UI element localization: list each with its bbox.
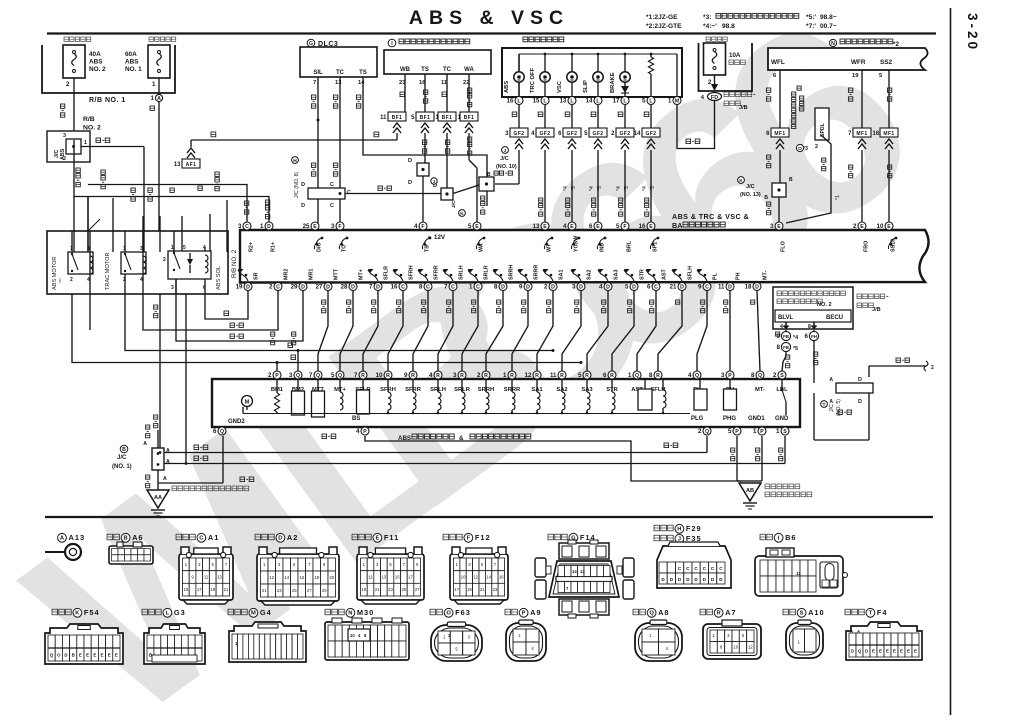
- svg-text:8: 8: [649, 372, 653, 379]
- svg-text:TS: TS: [359, 70, 367, 76]
- svg-text:*1:2JZ-GE: *1:2JZ-GE: [646, 14, 678, 21]
- svg-text:FLO: FLO: [781, 241, 787, 252]
- svg-text:BRAKE: BRAKE: [610, 72, 616, 93]
- svg-text:13: 13: [533, 223, 540, 230]
- svg-text:B6: B6: [785, 533, 796, 542]
- wire BF1-3 down: [446, 133, 448, 188]
- svg-text:K: K: [739, 178, 743, 184]
- wire pink-black horizontal: [345, 193, 441, 195]
- node FD: [708, 93, 722, 101]
- pin PL: [703, 283, 711, 291]
- svg-text:7: 7: [369, 284, 373, 291]
- svg-text:7: 7: [313, 80, 316, 86]
- svg-text:SRRH: SRRH: [509, 265, 515, 280]
- svg-text:3: 3: [63, 133, 66, 139]
- svg-text:28: 28: [341, 284, 348, 291]
- pin SA3: [583, 371, 591, 379]
- relay box R/B NO.1: [42, 45, 175, 93]
- svg-text:SFLH: SFLH: [688, 266, 694, 280]
- wire meter 1: [544, 105, 546, 128]
- pin LBL: [778, 371, 786, 379]
- wire red: [72, 294, 581, 363]
- pin STR: [608, 371, 616, 379]
- wire GND1 down: [761, 436, 763, 481]
- svg-text:3: 3: [453, 372, 457, 379]
- svg-text:13: 13: [381, 575, 386, 580]
- svg-text:M: M: [245, 400, 250, 406]
- svg-text:D: D: [408, 158, 412, 164]
- pin SRLH: [449, 283, 457, 291]
- svg-text:11: 11: [380, 115, 387, 121]
- lamp TRC OFF: [544, 53, 547, 56]
- svg-text:(NO. 10): (NO. 10): [496, 164, 517, 170]
- pin IND: [594, 222, 602, 230]
- svg-text:*7:': *7:': [806, 23, 816, 30]
- svg-text:BF1: BF1: [464, 115, 475, 121]
- svg-text:R/B: R/B: [83, 116, 95, 123]
- svg-text:J/C: J/C: [746, 184, 755, 190]
- svg-text:C: C: [276, 284, 280, 290]
- svg-text:ABS: ABS: [125, 59, 139, 66]
- svg-text:2: 2: [269, 284, 273, 291]
- svg-text:*4:~': *4:~': [703, 23, 717, 30]
- connector A8: [633, 609, 639, 615]
- pin 17L: [621, 97, 629, 105]
- wire SFLR: [363, 291, 378, 371]
- svg-text:18: 18: [314, 575, 319, 580]
- svg-text:7: 7: [444, 284, 448, 291]
- svg-text:E: E: [543, 224, 547, 230]
- wire fuse2 down: [73, 78, 75, 140]
- resistor MTT: [317, 380, 319, 391]
- lamp ABS: [518, 54, 520, 71]
- pin PL: [693, 371, 701, 379]
- junction J/C NO.13: [738, 177, 745, 184]
- connector A10: [783, 609, 789, 615]
- wire white-black row2: [164, 463, 785, 465]
- svg-text:10A: 10A: [729, 52, 741, 59]
- wire TC: [446, 74, 448, 112]
- pin MR2: [274, 283, 282, 291]
- svg-text:15: 15: [395, 575, 400, 580]
- svg-text:NO. 2: NO. 2: [817, 302, 832, 308]
- svg-text:15: 15: [533, 98, 540, 105]
- connector F12: [443, 534, 449, 540]
- svg-text:10: 10: [350, 633, 355, 638]
- svg-text:E: E: [887, 224, 891, 230]
- svg-text:D: D: [579, 284, 583, 290]
- svg-text:P: P: [735, 429, 739, 435]
- svg-text:SRLH: SRLH: [459, 265, 465, 280]
- pin PLG: [703, 427, 711, 435]
- wire SFRR: [413, 291, 428, 371]
- svg-text:E: E: [596, 224, 600, 230]
- svg-text:4: 4: [780, 324, 783, 330]
- pin FLO: [775, 222, 783, 230]
- svg-text:20: 20: [329, 575, 334, 580]
- svg-text:13: 13: [174, 162, 181, 168]
- svg-text:16: 16: [391, 284, 398, 291]
- svg-text:12: 12: [269, 575, 274, 580]
- svg-text:6: 6: [589, 223, 593, 230]
- svg-text:27: 27: [415, 587, 420, 592]
- svg-text:A: A: [143, 441, 147, 447]
- svg-text:C: C: [476, 284, 480, 290]
- svg-text:J: J: [504, 148, 507, 154]
- svg-text:5: 5: [625, 284, 629, 291]
- svg-text:5: 5: [616, 223, 620, 230]
- svg-text:8: 8: [494, 284, 498, 291]
- svg-text:2: 2: [163, 257, 166, 263]
- svg-text:O: O: [57, 652, 61, 657]
- svg-text:C: C: [245, 224, 249, 230]
- svg-text:2: 2: [773, 372, 777, 379]
- relay SPDL: [797, 86, 801, 90]
- svg-text:23: 23: [388, 587, 393, 592]
- svg-text:16: 16: [299, 575, 304, 580]
- svg-text:14: 14: [358, 80, 365, 86]
- svg-text:N: N: [831, 41, 835, 47]
- solenoid coil x587: [586, 380, 588, 392]
- svg-text:18: 18: [745, 284, 752, 291]
- svg-text:19: 19: [210, 587, 215, 592]
- svg-text:MF1: MF1: [883, 131, 894, 137]
- wire IND: [597, 150, 599, 170]
- connector B6: [760, 534, 766, 540]
- relay block outer: [47, 231, 228, 294]
- svg-text:S: S: [783, 429, 787, 435]
- pin 5L: [647, 97, 655, 105]
- connector GF2: [589, 128, 607, 137]
- svg-text:SLIP: SLIP: [583, 80, 589, 93]
- pin R2+: [243, 222, 251, 230]
- svg-text:00.7~: 00.7~: [820, 23, 837, 30]
- junction J/C NO.8: [292, 157, 299, 164]
- svg-text:BS: BS: [352, 416, 360, 422]
- svg-text:A8: A8: [658, 608, 669, 617]
- svg-text:D: D: [301, 284, 305, 290]
- pin WT: [541, 222, 549, 230]
- wire SIL: [317, 77, 319, 230]
- svg-text:S: S: [800, 611, 804, 617]
- svg-text:ABS & VSC: ABS & VSC: [409, 7, 569, 29]
- svg-text:FD: FD: [711, 95, 718, 101]
- svg-text:D: D: [64, 652, 67, 657]
- svg-text:*5: *5: [624, 186, 630, 191]
- svg-text:2: 2: [63, 156, 66, 162]
- resistor BM2: [297, 380, 299, 391]
- pin SS10: [885, 222, 893, 230]
- svg-text:R/B NO. 2: R/B NO. 2: [231, 249, 238, 278]
- wire SPDL down: [786, 135, 831, 223]
- svg-text:F: F: [623, 224, 626, 230]
- solenoid coil x562: [561, 380, 563, 392]
- svg-text:1: 1: [668, 98, 672, 105]
- svg-text:ABS & TRC & VSC &: ABS & TRC & VSC &: [672, 212, 749, 221]
- svg-text:P: P: [522, 611, 526, 617]
- svg-text:R: R: [436, 373, 440, 379]
- svg-text:E: E: [79, 652, 82, 657]
- svg-text:R: R: [510, 373, 514, 379]
- svg-text:2: 2: [268, 372, 272, 379]
- svg-text:Q: Q: [858, 649, 862, 654]
- pin MT-: [756, 371, 764, 379]
- svg-text:3: 3: [721, 372, 725, 379]
- svg-text:16: 16: [873, 131, 880, 137]
- svg-text:R: R: [656, 373, 660, 379]
- pin MTT: [314, 371, 322, 379]
- svg-text:(NO. 1): (NO. 1): [112, 464, 132, 470]
- svg-text:WFL: WFL: [771, 59, 785, 66]
- svg-text:29: 29: [322, 588, 327, 593]
- lamp BRAKE: [624, 53, 627, 56]
- svg-text:9: 9: [698, 284, 702, 291]
- svg-text:R: R: [361, 373, 365, 379]
- svg-text:(NO. 5): (NO. 5): [836, 399, 842, 416]
- svg-text:*4: *4: [642, 186, 648, 191]
- svg-text:14: 14: [284, 575, 289, 580]
- wire FH down: [813, 330, 815, 332]
- svg-text:FB: FB: [783, 334, 789, 339]
- solenoid coil x537: [536, 380, 538, 392]
- svg-text:Q: Q: [758, 373, 762, 379]
- pin WA: [473, 222, 481, 230]
- svg-text:21: 21: [262, 588, 267, 593]
- wire x113: [112, 198, 114, 252]
- wire meter 5: [650, 105, 652, 128]
- svg-text:D: D: [301, 182, 305, 188]
- svg-text:10: 10: [376, 372, 383, 379]
- pin 16L: [515, 97, 523, 105]
- svg-text:E: E: [860, 224, 864, 230]
- pin SA2: [558, 371, 566, 379]
- wire MT+: [340, 291, 353, 371]
- svg-text:D: D: [267, 224, 271, 230]
- svg-text:8: 8: [808, 324, 811, 330]
- svg-text:Q: Q: [695, 373, 699, 379]
- svg-text:10: 10: [733, 645, 738, 650]
- svg-text:Q: Q: [220, 429, 224, 435]
- svg-text:AST: AST: [662, 269, 668, 280]
- wire white-black long 1: [159, 294, 161, 453]
- svg-text:14: 14: [572, 569, 577, 574]
- switch LBL: [781, 380, 783, 390]
- svg-text:BLVL: BLVL: [778, 315, 794, 321]
- pin SA2: [577, 283, 585, 291]
- pin BRL: [621, 222, 629, 230]
- svg-text:3: 3: [171, 285, 174, 291]
- svg-text:2: 2: [66, 81, 70, 88]
- svg-text:D: D: [246, 284, 250, 290]
- svg-text:BF1: BF1: [420, 115, 431, 121]
- svg-text:MF1: MF1: [774, 131, 785, 137]
- svg-text:*4: *4: [563, 186, 569, 191]
- svg-text:AA: AA: [154, 495, 162, 501]
- svg-text:5: 5: [183, 245, 186, 251]
- svg-text:G4: G4: [260, 608, 272, 617]
- wire WFR: [861, 70, 863, 128]
- svg-text:C: C: [451, 284, 455, 290]
- svg-text:R1+: R1+: [271, 242, 277, 252]
- svg-text:1: 1: [469, 284, 473, 291]
- svg-text:19: 19: [852, 73, 859, 79]
- svg-text:98.8~: 98.8~: [820, 14, 837, 21]
- svg-text:FH: FH: [811, 334, 817, 339]
- svg-text:Q: Q: [635, 373, 639, 379]
- svg-text:TC: TC: [342, 245, 348, 252]
- svg-text:TS: TS: [421, 67, 429, 73]
- svg-text:ABS: ABS: [89, 59, 103, 66]
- svg-text:3: 3: [572, 284, 576, 291]
- svg-text:E: E: [886, 649, 889, 654]
- svg-text:11: 11: [796, 571, 801, 576]
- svg-text:D: D: [680, 284, 684, 290]
- svg-text:D: D: [408, 180, 412, 186]
- svg-text:C: C: [330, 203, 334, 209]
- connector DLC3: [307, 39, 315, 47]
- pin SFRH: [384, 371, 392, 379]
- svg-text:D: D: [526, 284, 530, 290]
- svg-text:R: R: [460, 373, 464, 379]
- svg-text:R/B NO. 1: R/B NO. 1: [89, 97, 126, 104]
- wire TS: [363, 77, 487, 177]
- pin SRLR: [458, 371, 466, 379]
- svg-text:A2: A2: [287, 533, 298, 542]
- pin 1M: [673, 97, 681, 105]
- pin SFLH: [678, 283, 686, 291]
- svg-text:O: O: [798, 146, 802, 152]
- svg-text:B: B: [72, 652, 75, 657]
- svg-text:M30: M30: [357, 608, 374, 617]
- svg-text:T: T: [869, 611, 873, 617]
- wire SFRH: [388, 291, 403, 371]
- svg-text:19: 19: [467, 587, 472, 592]
- svg-text:3: 3: [331, 223, 335, 230]
- svg-text:C: C: [330, 182, 334, 188]
- svg-text:23: 23: [277, 588, 282, 593]
- svg-text:Q: Q: [338, 373, 342, 379]
- connector F29/F35: [654, 525, 660, 531]
- svg-text:S: S: [780, 373, 784, 379]
- resistor PL: [699, 380, 701, 389]
- svg-text:9: 9: [519, 284, 523, 291]
- svg-text:F29: F29: [686, 524, 702, 533]
- connector A7: [700, 609, 706, 615]
- svg-text:13: 13: [335, 80, 342, 86]
- wire 1M to FD: [677, 101, 715, 149]
- svg-text:E: E: [313, 224, 317, 230]
- svg-text:MR2: MR2: [284, 269, 290, 280]
- connector A9: [505, 609, 511, 615]
- svg-text:SRRR: SRRR: [534, 265, 540, 280]
- svg-text:*4: *4: [589, 186, 595, 191]
- svg-text:A: A: [829, 377, 833, 383]
- svg-text:E: E: [893, 649, 896, 654]
- svg-text:A9: A9: [530, 608, 541, 617]
- svg-text:J/C: J/C: [451, 200, 457, 208]
- coil SFLH: [662, 380, 664, 390]
- svg-text:SIL: SIL: [313, 70, 323, 76]
- svg-text:GF2: GF2: [567, 131, 578, 137]
- wire white-black row3: [157, 470, 159, 483]
- wire TC: [339, 77, 341, 230]
- wire x227: [226, 200, 228, 252]
- pin FRO: [858, 222, 866, 230]
- svg-text:N: N: [348, 611, 352, 617]
- junction J/C NO.5: [821, 401, 828, 408]
- svg-text:NO. 1: NO. 1: [125, 66, 142, 73]
- svg-text:MT-: MT-: [763, 271, 769, 280]
- svg-text:29: 29: [291, 284, 298, 291]
- svg-text:*5:': *5:': [806, 14, 816, 21]
- svg-text:R: R: [560, 373, 564, 379]
- svg-text:7: 7: [354, 372, 358, 379]
- svg-text:12: 12: [525, 372, 532, 379]
- svg-text:Q: Q: [50, 652, 54, 657]
- svg-text:D: D: [865, 649, 868, 654]
- svg-text:4: 4: [356, 428, 360, 435]
- wire to R2+: [88, 185, 247, 223]
- svg-text:13: 13: [580, 569, 585, 574]
- svg-text:J/B: J/B: [739, 105, 748, 111]
- meter bus: [519, 53, 677, 55]
- fuse 10A meter: [706, 37, 710, 41]
- svg-text:D: D: [755, 284, 759, 290]
- pin BM1: [273, 371, 281, 379]
- svg-text:J/C: J/C: [500, 156, 509, 162]
- svg-text:16: 16: [499, 575, 504, 580]
- svg-text:*2:2JZ-GTE: *2:2JZ-GTE: [646, 23, 682, 30]
- connector GF2: [510, 128, 528, 137]
- connector F14: [548, 534, 554, 540]
- svg-text:GF2: GF2: [620, 131, 631, 137]
- wire white-black row1: [164, 452, 707, 454]
- pin STR: [630, 283, 638, 291]
- pin R1+: [265, 222, 273, 230]
- svg-text:SFRR: SFRR: [434, 265, 440, 280]
- svg-text:TC: TC: [443, 67, 452, 73]
- junction J/C NO.1: [120, 445, 128, 453]
- svg-text:F63: F63: [455, 608, 471, 617]
- svg-text:R: R: [411, 373, 415, 379]
- pin SRLH: [434, 371, 442, 379]
- coil MT+: [339, 380, 341, 392]
- svg-text:GND1: GND1: [748, 416, 765, 422]
- svg-text:14: 14: [634, 131, 641, 137]
- pin MT+: [336, 371, 344, 379]
- svg-text:11: 11: [204, 575, 209, 580]
- svg-text:D: D: [858, 377, 862, 383]
- svg-text:PL: PL: [713, 272, 719, 280]
- svg-text:GF2: GF2: [514, 131, 525, 137]
- svg-text:G: G: [309, 41, 313, 47]
- svg-text:E: E: [649, 224, 653, 230]
- svg-text:H: H: [677, 527, 681, 533]
- svg-text:ABS MOTOR: ABS MOTOR: [52, 257, 58, 290]
- svg-text:FRO: FRO: [864, 241, 870, 252]
- wire SRRH: [486, 291, 503, 371]
- pin SFRR: [409, 371, 417, 379]
- wire PLG down: [706, 436, 708, 453]
- wire 16L left: [518, 150, 520, 184]
- wire PHG down: [736, 436, 738, 481]
- svg-text:13: 13: [560, 98, 567, 105]
- svg-text:A6: A6: [132, 533, 143, 542]
- svg-text:MF1: MF1: [856, 131, 867, 137]
- svg-text:E: E: [907, 649, 910, 654]
- svg-text:60A: 60A: [125, 51, 137, 58]
- svg-text:14: 14: [486, 575, 491, 580]
